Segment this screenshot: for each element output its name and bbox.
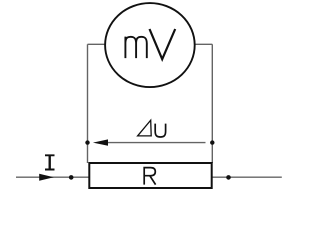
wire right vertical (voltmeter right lead down to resistor) — [211, 44, 213, 163]
voltmeter label mV (letter V) — [150, 29, 176, 59]
arrowhead of delta-U dimension (points left) — [93, 139, 108, 145]
current arrow (points right) — [39, 174, 54, 181]
resistor label R (drawn as strokes) — [144, 168, 155, 185]
dimension line for delta-U — [107, 142, 206, 144]
voltmeter label mV (letter m) — [125, 37, 146, 59]
current label I (serif capital drawn as strokes) — [45, 155, 55, 169]
wire left vertical (voltmeter left lead down to resistor) — [87, 44, 89, 163]
label U (drawn as strokes) — [155, 124, 165, 137]
node C (left main-wire junction) — [69, 175, 74, 180]
wire left top horizontal (voltmeter left lead) — [88, 43, 106, 45]
label delta (triangle glyph) — [138, 120, 152, 136]
node B (right dimension junction) — [210, 140, 214, 144]
wire main right segment — [211, 176, 282, 178]
node A (left dimension junction) — [85, 140, 89, 144]
wire main left segment — [16, 176, 90, 178]
voltmeter U1 circle — [105, 3, 195, 87]
node D (right main-wire junction) — [226, 175, 231, 180]
resistor R1 body — [89, 163, 211, 188]
wire right top horizontal (voltmeter right lead) — [195, 43, 213, 45]
